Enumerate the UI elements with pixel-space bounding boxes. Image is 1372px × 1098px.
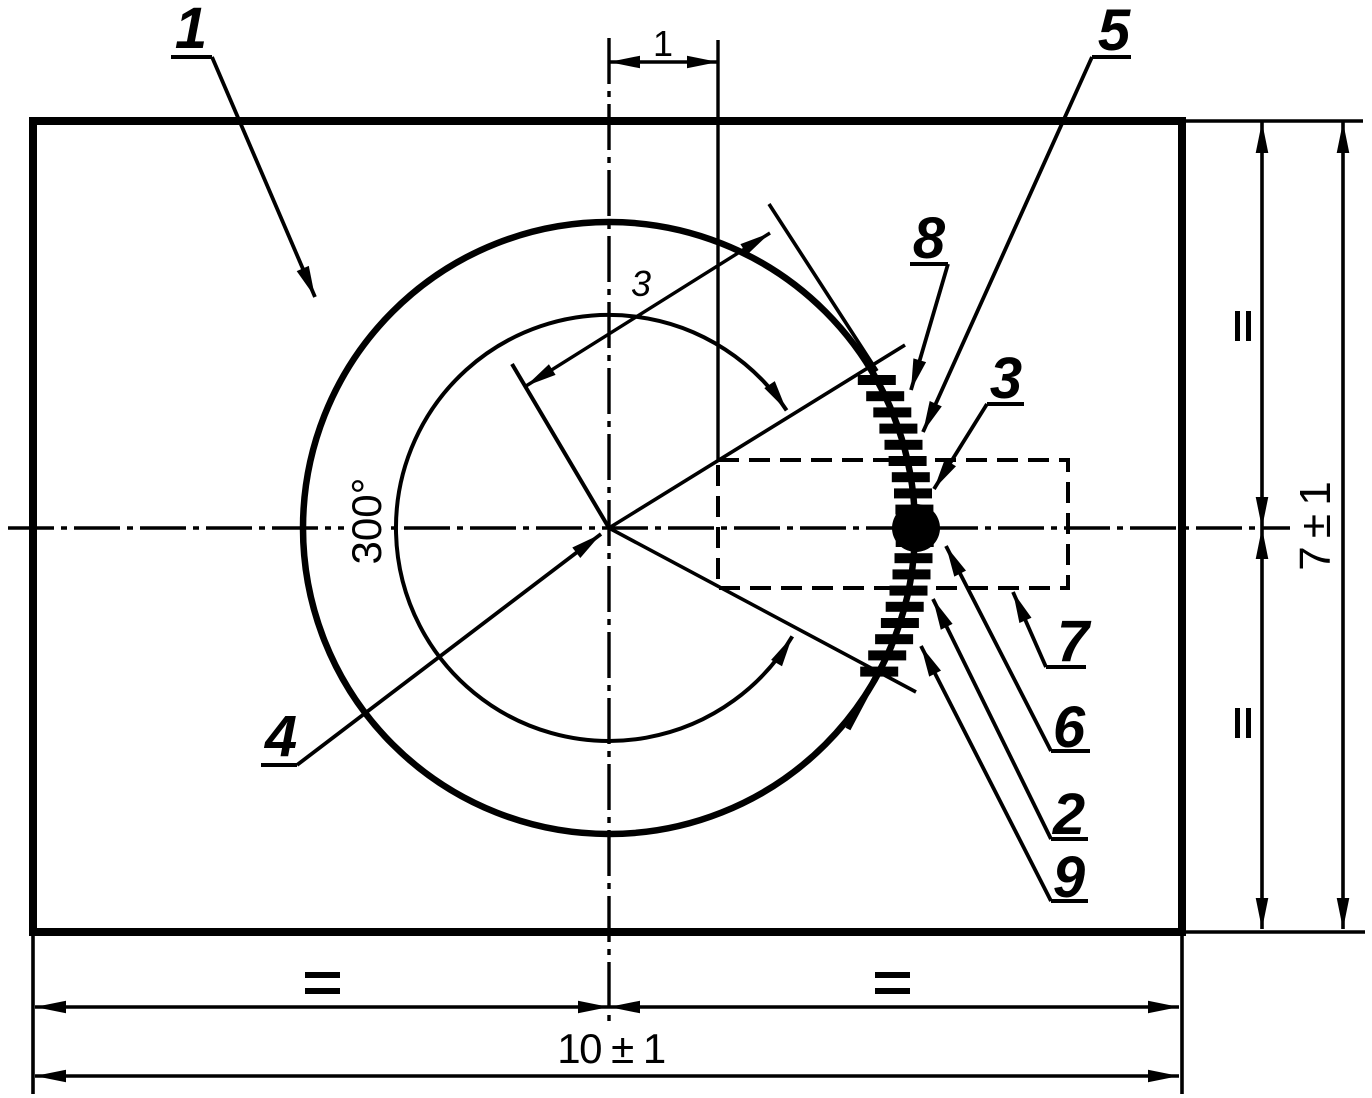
extension line left-edge-down	[31, 934, 35, 1094]
svg-text:7 ± 1: 7 ± 1	[1291, 483, 1340, 571]
sector edge lower (radius at -28 deg)	[609, 528, 916, 692]
bottom outer dim line 10+-1	[35, 1074, 1179, 1078]
part plate outline (item 1)	[33, 121, 1182, 932]
svg-text:3: 3	[990, 346, 1022, 411]
leader 4	[297, 534, 601, 765]
right outer dim line 7+-1	[1341, 122, 1345, 929]
arc arrowhead upper	[764, 381, 786, 410]
right inner dim line upper half (=)	[1260, 122, 1264, 528]
dashed rectangle (item 7)	[718, 460, 1068, 588]
leader 3	[934, 404, 987, 489]
extension line right-edge-down	[1180, 934, 1184, 1094]
horizontal centerline	[8, 526, 1290, 529]
leader 5	[923, 57, 1092, 432]
svg-text:3: 3	[631, 263, 651, 304]
300 degree label	[344, 478, 388, 570]
svg-text:1: 1	[175, 0, 207, 61]
300 degree angle dimension arc	[396, 315, 792, 741]
svg-text:7: 7	[1057, 609, 1092, 674]
leader 1	[212, 57, 315, 297]
equals symbol right upper	[1235, 311, 1240, 341]
tangent tick T2 at lower sector edge	[848, 646, 892, 729]
big circle (disc)	[303, 222, 915, 834]
equals symbol bottom right	[875, 972, 910, 978]
bottom inner dim line (= =)	[35, 1005, 1179, 1009]
svg-text:8: 8	[913, 206, 946, 271]
dimension "3" double arrow	[526, 233, 770, 386]
vertical centerline	[607, 38, 610, 1028]
leader 7	[1013, 592, 1046, 667]
equals symbol right lower	[1235, 708, 1240, 738]
svg-text:1: 1	[653, 23, 673, 64]
sector edge upper (radius at +32 deg)	[609, 345, 905, 528]
stylus point dot (item 5/6)	[892, 504, 940, 552]
extension line top-right	[1184, 119, 1363, 123]
right inner dim line lower half (=)	[1260, 528, 1264, 929]
equals symbol bottom left	[305, 972, 340, 978]
svg-text:5: 5	[1098, 0, 1131, 63]
svg-text:4: 4	[264, 704, 297, 769]
leader 8	[911, 264, 948, 390]
extension line bottom-right	[1184, 930, 1365, 934]
tangent tick T1 at upper sector edge	[769, 204, 877, 371]
dimension "1" top: dim line	[609, 60, 718, 64]
svg-text:300°: 300°	[343, 478, 390, 565]
arc arrowhead lower	[771, 636, 792, 666]
leader 2	[933, 599, 1051, 839]
knurled edge hatch bars (item 8/2/9 zone)	[858, 375, 934, 677]
radius line to upper-left (for dim 3)	[512, 364, 609, 528]
svg-text:10 ± 1: 10 ± 1	[557, 1025, 665, 1072]
leader 6	[946, 546, 1051, 751]
extension line x=718 for dim 1	[716, 40, 719, 460]
leader 9	[921, 646, 1051, 901]
